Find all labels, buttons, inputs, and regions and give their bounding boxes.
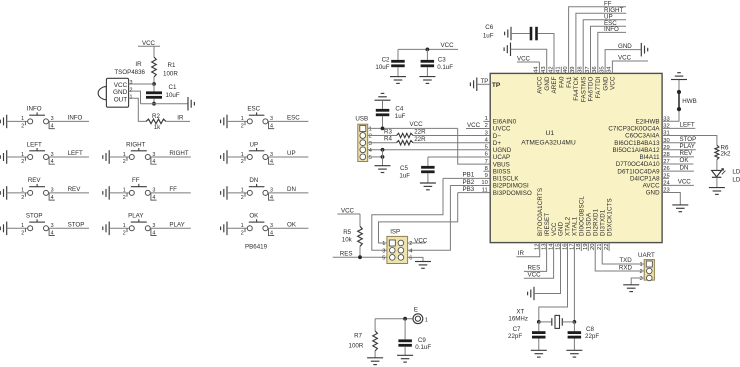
wire net RIGHT [150,156,191,158]
svg-text:1: 1 [21,223,24,229]
wire TSOP OUT to R2 [134,98,146,121]
wire net INFO [49,120,90,122]
svg-text:ESC: ESC [287,115,300,122]
pin numbers FF [123,188,156,201]
U1 right pin numbers [663,116,670,193]
svg-text:GND: GND [646,190,660,197]
ground (button DN) [226,186,228,200]
svg-text:GND: GND [602,76,609,91]
pin stub U1-18 [580,243,582,251]
wire ground to C6 [511,33,530,35]
wire PB1 net [372,178,490,250]
capacitor C3 [421,49,454,76]
ground (pin23) [672,204,688,206]
svg-text:1: 1 [369,127,372,133]
svg-text:VCC: VCC [414,237,428,244]
wire ground to switch FF [109,192,129,194]
resistor R4 [384,136,426,145]
svg-text:LEFT: LEFT [27,141,42,148]
wire net PLAY (pin 29) [662,149,696,151]
svg-text:3: 3 [639,276,642,282]
ground (button FF) [108,186,110,200]
ground (HWB, above) [671,79,687,81]
svg-text:4: 4 [270,230,273,236]
pin stub U1-22 [608,243,610,251]
wire ground to switch STOP [7,227,28,229]
svg-text:TP: TP [492,82,501,89]
pin numbers LEFT [21,152,54,165]
wire net STOP [49,227,90,229]
pin stub U1-8 [483,170,490,172]
svg-text:1: 1 [123,223,126,229]
svg-text:2: 2 [241,159,244,165]
svg-text:OK: OK [249,213,259,220]
svg-text:22R: 22R [414,129,426,136]
label LD [732,168,740,183]
svg-text:5: 5 [485,145,488,151]
wire USB pin3 to R4 [368,142,397,144]
wire VCC pin34 [612,61,648,73]
svg-text:VCC: VCC [517,55,531,62]
wire IR to pin12 [516,243,539,257]
svg-text:DI0OC0BSCL: DI0OC0BSCL [579,196,586,236]
svg-text:BI4A11: BI4A11 [639,154,660,161]
svg-text:D7T0OC4DA10: D7T0OC4DA10 [616,161,660,168]
pin numbers OK [241,223,273,236]
svg-text:36: 36 [592,66,598,72]
wire XTAL1 to crystal [573,243,575,322]
svg-text:5: 5 [382,256,385,262]
ground (USB) [375,165,391,167]
svg-text:4: 4 [270,159,273,165]
svg-text:PB1: PB1 [463,172,475,179]
wire net FF (pin 40) [569,7,626,74]
svg-text:2: 2 [21,230,24,236]
resistor R6 [715,144,731,159]
svg-text:22pF: 22pF [508,333,522,340]
svg-text:1: 1 [21,116,24,122]
USB pin numbers [369,127,372,162]
node USB pin4 junction [381,148,385,152]
wire PB3 net [379,193,491,243]
UART pin numbers [639,262,642,282]
svg-text:4: 4 [152,159,155,165]
svg-text:2: 2 [123,159,126,165]
svg-text:FASTMS: FASTMS [580,76,587,102]
wire net FF [150,192,191,194]
svg-text:REV: REV [68,186,82,193]
wire UCAP [428,156,490,158]
ground (C9) [397,354,413,356]
svg-text:10k: 10k [342,237,353,244]
wire VCC rail (C2/C3) [398,48,458,50]
svg-text:C6OC3AI4A: C6OC3AI4A [625,133,660,140]
svg-text:35: 35 [599,66,605,72]
node USB pin5 junction [381,155,385,159]
svg-text:RXD: RXD [619,264,633,271]
svg-text:42: 42 [548,66,554,72]
wire VCC to pin44 [538,62,540,73]
svg-text:AVCC: AVCC [643,183,660,190]
wire RES net [333,256,387,258]
wire net REV (pin 28) [662,156,694,158]
svg-text:E2IHWB: E2IHWB [636,119,660,126]
ground (button RIGHT) [108,150,110,164]
svg-text:GND: GND [618,43,632,50]
svg-text:4: 4 [270,195,273,201]
ground (C2) [390,76,406,78]
svg-text:PLAY: PLAY [128,213,143,220]
wire net OK (pin 27) [662,163,693,165]
pushbutton S-STOP [25,219,54,235]
svg-text:DN: DN [287,186,296,193]
svg-text:BI5OC1AI4BA12: BI5OC1AI4BA12 [613,147,661,154]
svg-text:TP: TP [481,79,489,85]
node C9 junction [403,317,407,321]
capacitor C8 [568,322,600,350]
svg-text:UP: UP [249,141,258,148]
svg-text:4: 4 [51,124,54,130]
svg-text:U1: U1 [546,130,555,137]
svg-text:UART: UART [638,252,655,259]
wire ground to switch LEFT [7,156,28,158]
svg-text:6: 6 [409,256,412,262]
wire UART pin3 to ground [631,278,644,285]
ground (button ESC) [226,115,228,129]
svg-text:C7: C7 [513,326,521,333]
pushbutton S-RIGHT [127,148,157,164]
node C4 junction [381,126,385,130]
resistor R2 [146,113,166,131]
svg-text:2: 2 [130,87,133,93]
ground (R7) [367,357,383,359]
jumper HWB [677,90,681,111]
wire ground to switch DN [227,192,247,194]
svg-text:10: 10 [481,180,487,186]
svg-text:1: 1 [21,188,24,194]
wire RXD pin20 [595,243,644,271]
U1 bottom pin names [537,188,613,236]
ground (LED) [709,187,725,189]
svg-text:39: 39 [570,66,576,72]
svg-text:R4: R4 [384,136,392,143]
ground (C7) [531,349,547,351]
svg-text:2: 2 [409,241,412,247]
wire ground to switch ESC [227,120,247,122]
capacitor C6 [483,24,538,40]
pin numbers DN [241,188,273,201]
svg-text:FA7TDI: FA7TDI [595,76,602,98]
U1 left pin names [492,82,532,197]
VCC symbol (AVCC pin44) [517,55,539,62]
svg-text:4: 4 [409,248,412,254]
svg-text:C2: C2 [382,56,390,63]
wire net UP (pin 38) [583,20,626,74]
pin numbers INFO [21,116,54,129]
svg-text:REV: REV [28,177,42,184]
svg-text:2: 2 [241,230,244,236]
svg-text:GND: GND [113,89,128,96]
node C3 junction [426,48,430,52]
svg-text:10uF: 10uF [375,64,389,71]
wire R4 to D+ [413,142,490,144]
wire RES to pin13 [524,243,547,272]
svg-text:1: 1 [21,152,24,158]
svg-text:2: 2 [21,124,24,130]
svg-text:R7: R7 [354,333,362,340]
wire net PLAY [150,227,191,229]
ground (TP) [476,78,478,92]
wire R3 to D- [413,135,490,137]
resistor R5 [342,214,363,246]
pushbutton S-PLAY [127,219,157,235]
wire R1 to node [153,77,155,84]
svg-text:IR: IR [135,61,142,68]
ground (button UP) [226,150,228,164]
svg-text:4: 4 [369,148,372,154]
svg-text:BI2PDIMOSI: BI2PDIMOSI [493,183,529,190]
svg-text:FA6TDO: FA6TDO [588,76,595,101]
svg-text:1uF: 1uF [483,33,494,40]
ground (button PLAY) [108,222,110,236]
svg-text:ESC: ESC [247,106,260,113]
svg-text:1: 1 [241,152,244,158]
op-amp U1 body ATMEGA32U4MU [490,73,662,242]
svg-text:37: 37 [585,66,591,72]
svg-text:FF: FF [132,177,140,184]
svg-text:10uF: 10uF [166,92,180,99]
U1 top pin numbers [534,66,613,73]
wire VCC to R1 [153,46,155,57]
wire R7 to ground [374,351,376,358]
ground (C5) [420,182,436,184]
resistor R3 [384,128,426,137]
svg-text:43: 43 [541,66,547,72]
U1 right pin names [608,119,660,197]
ground (C8) [566,349,582,351]
capacitor C4 [376,100,406,128]
VCC symbol (IR supply) [138,40,160,47]
svg-text:TSOP4836: TSOP4836 [114,69,145,76]
ground (pin35) [640,43,642,57]
svg-text:INFO: INFO [604,26,619,33]
svg-text:PLAY: PLAY [169,221,184,228]
svg-text:DN: DN [249,177,258,184]
svg-text:C6: C6 [485,24,493,31]
svg-text:UCAP: UCAP [493,154,510,161]
svg-text:1: 1 [123,152,126,158]
svg-text:FA0: FA0 [559,76,566,88]
wire ground to switch REV [7,192,28,194]
wire ISP pin2 VCC [408,242,426,244]
U1 bottom pin numbers [535,243,610,250]
TSOP pin stubs and numbers [129,80,134,100]
svg-text:C4: C4 [395,106,403,113]
wire net DN [268,192,309,194]
svg-text:D6T1IOC4DA9: D6T1IOC4DA9 [617,168,660,175]
svg-text:UVCC: UVCC [493,126,511,133]
svg-text:44: 44 [534,66,540,73]
svg-text:AVCC: AVCC [537,76,544,94]
svg-text:INFO: INFO [68,115,83,122]
wire ground to switch UP [227,156,247,158]
svg-text:2: 2 [241,195,244,201]
svg-text:R1: R1 [168,62,176,69]
svg-text:USB: USB [355,116,368,123]
svg-text:7: 7 [485,159,488,165]
ground (C4, above) [375,99,391,101]
wire ISP pin6 to ground [408,257,423,261]
svg-text:OK: OK [287,221,297,228]
svg-text:VCC: VCC [142,40,156,47]
svg-text:4: 4 [152,195,155,201]
svg-text:DI2RXD1: DI2RXD1 [592,208,599,236]
svg-text:2: 2 [369,134,372,140]
U1 left pin numbers [481,116,488,193]
connector UART [644,260,654,281]
label XT 16MHz [508,308,528,322]
pushbutton S-DN [245,184,274,200]
pin numbers REV [21,188,54,201]
ground (GND pin43) [510,43,512,57]
svg-text:FA1: FA1 [566,76,573,88]
svg-text:STOP: STOP [26,213,43,220]
wire TXD pin21 [602,243,644,264]
svg-text:3: 3 [130,80,133,86]
pin stub U1-41 [560,67,562,74]
svg-text:VCC: VCC [528,271,542,278]
svg-text:VCC: VCC [610,76,617,90]
svg-text:C7ICP3CK0OC4A: C7ICP3CK0OC4A [608,126,660,133]
pushbutton S-UP [245,148,274,164]
svg-text:2k2: 2k2 [721,151,732,158]
pushbutton S-LEFT [25,148,54,164]
svg-text:HWB: HWB [682,98,696,105]
svg-text:R5: R5 [343,229,351,236]
svg-text:4: 4 [51,230,54,236]
svg-text:6: 6 [485,152,488,158]
wire net INFO (pin 36) [598,32,626,73]
svg-text:LD: LD [732,176,740,183]
svg-text:BI1SCLK: BI1SCLK [493,176,520,183]
U1 top pin names [537,76,617,102]
svg-text:BI0SS: BI0SS [493,168,511,175]
wire ground to switch RIGHT [109,156,129,158]
svg-text:RES: RES [340,250,353,257]
svg-text:1: 1 [425,317,428,323]
svg-text:REV: REV [680,150,694,157]
pin numbers UP [241,152,273,165]
svg-text:VCC: VCC [410,121,424,128]
wire TP [477,83,490,85]
ground (C3) [419,76,435,78]
svg-text:STOP: STOP [680,136,697,143]
wire pin31 to R6 [662,136,717,146]
ground (pin15) [533,287,535,300]
wire ground to switch PLAY [109,227,129,229]
svg-text:1: 1 [241,188,244,194]
svg-text:PB6419: PB6419 [245,244,268,251]
svg-text:OK: OK [680,157,690,164]
pushbutton S-INFO [25,112,54,128]
crystal XT 16MHz [539,315,575,328]
svg-text:4: 4 [51,159,54,165]
wire USB pin4 / UGND [368,149,491,151]
svg-text:D−: D− [493,133,502,140]
svg-text:INFO: INFO [27,106,42,113]
connector ISP [387,236,408,263]
svg-text:E: E [414,307,418,314]
svg-text:RIGHT: RIGHT [126,141,145,148]
svg-text:VCC: VCC [114,82,128,89]
wire GND pin35 [605,50,641,74]
svg-text:4: 4 [152,230,155,236]
wire UVCC net label stub [466,128,490,130]
svg-text:VCC: VCC [441,42,455,49]
capacitor C7 [508,322,546,350]
pin numbers STOP [21,223,54,236]
svg-text:C3: C3 [438,56,446,63]
svg-text:2: 2 [639,269,642,275]
svg-text:4: 4 [51,195,54,201]
svg-text:BI6OC1B4BA13: BI6OC1B4BA13 [614,140,660,147]
svg-text:1: 1 [241,116,244,122]
ISP pin numbers [382,241,412,261]
svg-text:D5XCK1CTS: D5XCK1CTS [606,198,613,236]
svg-text:2: 2 [241,124,244,130]
svg-text:TXD: TXD [619,257,632,264]
svg-text:PB3: PB3 [463,186,475,193]
svg-text:RIGHT: RIGHT [169,150,188,157]
svg-text:D4ICP1A8: D4ICP1A8 [630,176,660,183]
svg-text:VCC: VCC [467,122,481,129]
ground (button OK) [226,222,228,236]
ground (AREF/C6) [510,27,512,40]
svg-text:STOP: STOP [68,221,85,228]
capacitor C5 [399,157,434,183]
svg-text:4: 4 [270,124,273,130]
svg-text:100R: 100R [349,342,364,349]
pin stub U1-25 [662,177,669,179]
wire net UP [268,156,309,158]
wire XTAL2 to crystal [539,243,568,322]
pin numbers PLAY [123,223,156,236]
wire net OK [268,227,309,229]
resistor R1 [152,57,179,78]
wire net DN (pin 26) [662,170,694,172]
svg-text:22pF: 22pF [585,333,599,340]
svg-text:0.1uF: 0.1uF [437,64,453,71]
wire net ESC (pin 37) [591,26,627,73]
wire net RIGHT (pin 39) [576,13,626,73]
pin numbers RIGHT [123,152,156,165]
wire IR net [166,120,190,122]
wire net LEFT (pin 32) [662,127,695,129]
svg-text:2: 2 [123,230,126,236]
wire VCC pin24 [662,184,694,186]
capacitor C2 [375,49,404,76]
pushbutton S-ESC [245,112,274,128]
capacitor C1 [146,84,180,99]
wire TSOP pin2 to ground rail [134,91,141,104]
svg-text:2: 2 [21,159,24,165]
LED LD [712,169,726,178]
wire USB pin5 [368,156,383,158]
svg-text:IR: IR [177,115,184,122]
pushbutton S-FF [127,184,157,200]
svg-text:41: 41 [556,66,562,72]
IR receiver U-IR TSOP4836 [98,78,128,107]
